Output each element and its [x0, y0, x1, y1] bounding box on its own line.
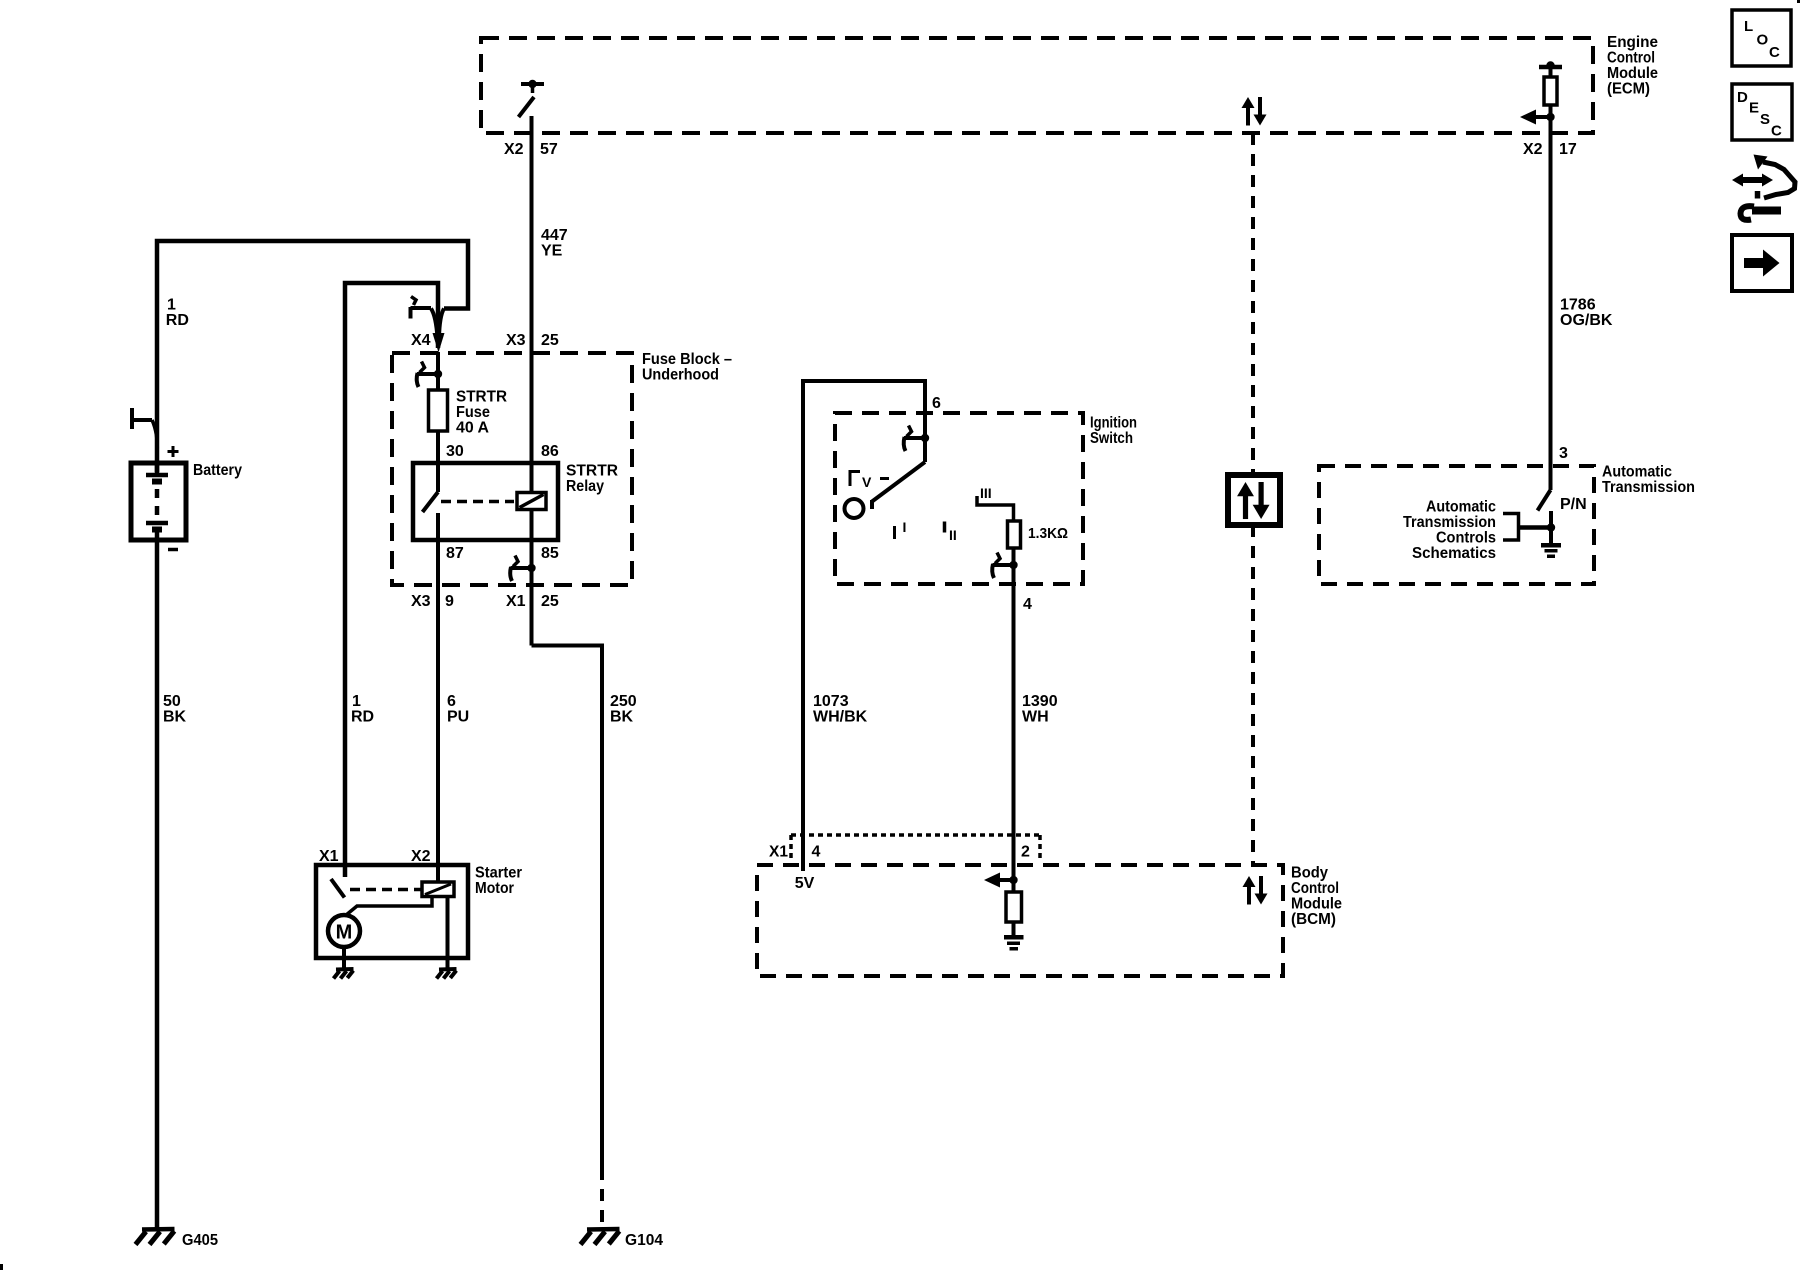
label 50 BK	[163, 693, 187, 726]
svg-text:Battery: Battery	[193, 462, 242, 479]
splice left branch	[431, 309, 438, 339]
svg-text:Control: Control	[1607, 50, 1655, 67]
automatic transmission box	[1319, 464, 1695, 585]
svg-text:D: D	[1737, 89, 1748, 106]
ECM input arrow junction	[1520, 105, 1555, 125]
svg-text:86: 86	[541, 443, 559, 460]
P/N switch blade	[1538, 490, 1551, 511]
svg-text:25: 25	[541, 332, 559, 349]
svg-text:X3: X3	[411, 593, 431, 610]
label 1786 OG/BK	[1560, 297, 1613, 330]
svg-text:RD: RD	[166, 312, 189, 329]
starter solenoid switch blade	[331, 879, 345, 898]
svg-text:87: 87	[446, 545, 464, 562]
svg-text:RD: RD	[351, 709, 374, 726]
svg-text:BK: BK	[610, 709, 634, 726]
svg-text:Switch: Switch	[1090, 430, 1133, 447]
fuse STRTR 40A	[429, 389, 508, 437]
node X2 57	[504, 141, 558, 158]
starter solenoid coil	[422, 882, 454, 897]
svg-text:Automatic: Automatic	[1426, 499, 1496, 516]
svg-text:X2: X2	[1523, 141, 1543, 158]
position mark I	[895, 519, 907, 539]
svg-text:BK: BK	[163, 709, 187, 726]
svg-text:5V: 5V	[795, 875, 815, 892]
svg-text:(ECM): (ECM)	[1607, 81, 1650, 98]
serial data dashed wire data link box to BCM	[1251, 525, 1255, 865]
transmission signal ground	[1541, 543, 1561, 558]
connector hook at battery positive	[132, 408, 157, 452]
connector at STRTR fuse feed	[417, 362, 443, 388]
wire coil to motor	[346, 897, 433, 916]
svg-text:X4: X4	[411, 332, 431, 349]
ECM pull-up resistor	[1544, 77, 1557, 105]
wire relay 85 down	[530, 510, 534, 646]
BCM X1 connector strip	[769, 835, 1040, 861]
ground G104	[581, 1229, 664, 1249]
icon LOC box	[1732, 10, 1791, 66]
svg-text:30: 30	[446, 443, 464, 460]
icon forward arrow box	[1732, 235, 1792, 291]
battery positive cable 1 RD	[157, 241, 468, 472]
position mark II	[945, 522, 957, 544]
svg-text:P/N: P/N	[1560, 496, 1587, 513]
svg-text:6: 6	[932, 395, 941, 412]
svg-text:G104: G104	[625, 1232, 663, 1249]
label 1390 WH	[1022, 693, 1058, 726]
ECM starter-relay driver switch	[519, 80, 545, 117]
splice arrowhead at X4	[433, 333, 445, 353]
svg-text:C: C	[1771, 123, 1782, 140]
wire fuse to relay 30	[436, 431, 440, 463]
svg-text:OG/BK: OG/BK	[1560, 312, 1613, 329]
svg-text:1073: 1073	[813, 693, 849, 710]
ground at starter solenoid	[437, 969, 457, 979]
svg-text:250: 250	[610, 693, 637, 710]
ground G405	[136, 1229, 219, 1249]
svg-text:4: 4	[812, 844, 821, 861]
node X2 17	[1523, 141, 1577, 158]
ignition switch box	[835, 413, 1137, 584]
svg-text:1: 1	[167, 297, 176, 314]
relay coil	[517, 493, 546, 510]
label 6 PU	[447, 693, 469, 726]
wire splice arrow to fuse	[436, 352, 440, 390]
node X3 9	[411, 593, 454, 610]
page corner mark	[0, 1264, 3, 1270]
svg-text:57: 57	[540, 141, 558, 158]
node X3 25 fuse block entry	[506, 332, 559, 349]
serial data up/down arrows in BCM	[1243, 876, 1268, 905]
relay dashed actuator link	[441, 500, 514, 504]
svg-text:V: V	[862, 474, 872, 490]
svg-text:III: III	[980, 485, 992, 501]
battery negative wire 50 BK	[155, 540, 160, 1228]
starter dashed actuator link	[350, 888, 421, 892]
svg-text:Module: Module	[1291, 896, 1342, 913]
P/N contact and junction	[1519, 511, 1555, 543]
svg-text:Transmission: Transmission	[1403, 514, 1496, 531]
svg-text:WH/BK: WH/BK	[813, 709, 868, 726]
svg-text:17: 17	[1559, 141, 1577, 158]
serial data up/down arrows in ECM	[1242, 97, 1267, 126]
wire 6 PU relay 87 to starter X2	[436, 513, 440, 882]
svg-text:25: 25	[541, 593, 559, 610]
BCM pull-down resistor	[1006, 880, 1022, 936]
connector at ignition pin 6	[904, 426, 930, 452]
svg-text:X1: X1	[506, 593, 526, 610]
svg-text:Ignition: Ignition	[1090, 415, 1137, 432]
svg-text:E: E	[1749, 100, 1759, 117]
wire solenoid coil to ground	[446, 897, 450, 969]
svg-text:YE: YE	[541, 243, 563, 260]
svg-text:C: C	[1769, 44, 1780, 61]
svg-text:50: 50	[163, 693, 181, 710]
label 1 RD top	[166, 297, 189, 330]
icon wiring harness arrows	[1732, 155, 1795, 220]
wire 1390 WH resistor to BCM	[1012, 548, 1016, 880]
wire motor to ground	[342, 947, 346, 968]
ground at starter motor	[334, 969, 354, 979]
svg-text:1: 1	[352, 693, 361, 710]
battery minus sign	[168, 548, 178, 552]
svg-text:2: 2	[1021, 844, 1030, 861]
svg-text:1786: 1786	[1560, 297, 1596, 314]
svg-text:Starter: Starter	[475, 865, 522, 882]
svg-text:Module: Module	[1607, 65, 1658, 82]
svg-text:Automatic: Automatic	[1602, 464, 1672, 481]
wire III to resistor	[977, 496, 1014, 521]
svg-text:PU: PU	[447, 709, 469, 726]
svg-text:X3: X3	[506, 332, 526, 349]
svg-text:II: II	[949, 527, 957, 543]
svg-text:Motor: Motor	[475, 880, 514, 897]
BCM signal ground	[1004, 935, 1024, 951]
wire starter X1 to splice 1 RD	[345, 283, 438, 877]
svg-text:X2: X2	[504, 141, 524, 158]
relay switch blade	[423, 463, 439, 512]
relay STRTR	[413, 463, 618, 541]
starter motor box	[316, 865, 522, 959]
wire 250 BK to G104	[532, 646, 603, 1229]
svg-text:S: S	[1760, 111, 1770, 128]
page corner mark top right	[1797, 0, 1800, 3]
svg-text:Engine: Engine	[1607, 34, 1658, 51]
bracket to schematics reference	[1503, 514, 1519, 541]
svg-text:4: 4	[1023, 596, 1032, 613]
svg-text:L: L	[1744, 18, 1753, 35]
BCM box (Body Control Module)	[757, 865, 1342, 977]
svg-text:Control: Control	[1291, 880, 1339, 897]
svg-text:I: I	[903, 519, 907, 535]
svg-text:Controls: Controls	[1436, 530, 1496, 547]
svg-text:Fuse: Fuse	[456, 404, 490, 421]
battery plus sign	[168, 446, 179, 457]
serial data link box	[1228, 475, 1280, 525]
svg-text:1390: 1390	[1022, 693, 1058, 710]
svg-text:6: 6	[447, 693, 456, 710]
svg-text:447: 447	[541, 227, 568, 244]
svg-text:M: M	[336, 922, 353, 944]
label 1 RD bottom	[351, 693, 374, 726]
label Automatic Transmission Controls Schematics	[1403, 499, 1496, 563]
svg-text:X1: X1	[319, 848, 339, 865]
svg-text:85: 85	[541, 545, 559, 562]
label 250 BK	[610, 693, 637, 726]
connector at ignition pin 4	[992, 553, 1018, 579]
svg-text:X1: X1	[769, 844, 788, 861]
ECM box (Engine Control Module)	[481, 34, 1658, 133]
icon DESC box	[1732, 84, 1792, 140]
svg-text:Transmission: Transmission	[1602, 479, 1695, 496]
svg-text:3: 3	[1559, 445, 1568, 462]
svg-text:G405: G405	[182, 1232, 218, 1249]
ignition switch wiper arm	[872, 438, 925, 509]
label 1073 WH/BK	[813, 693, 868, 726]
svg-text:Relay: Relay	[566, 478, 604, 495]
serial data dashed wire ECM to data link box	[1251, 133, 1255, 475]
svg-text:STRTR: STRTR	[566, 463, 618, 480]
connector hook at X4 splice	[411, 297, 432, 319]
svg-text:(BCM): (BCM)	[1291, 911, 1336, 928]
position mark IV	[850, 470, 889, 490]
label 447 YE	[541, 227, 568, 260]
node X1 25	[506, 593, 559, 610]
svg-text:1.3KΩ: 1.3KΩ	[1028, 525, 1068, 542]
battery cells	[146, 463, 168, 540]
Fuse Block - Underhood box	[392, 351, 732, 585]
ECM pull-up supply bar	[1539, 61, 1562, 78]
svg-text:Body: Body	[1291, 865, 1328, 882]
svg-text:Schematics: Schematics	[1412, 545, 1496, 562]
motor M	[328, 915, 360, 947]
svg-text:9: 9	[445, 593, 454, 610]
ignition resistor 1.3K	[1008, 521, 1069, 548]
svg-text:40 A: 40 A	[456, 420, 489, 437]
ignition switch rotor circle	[845, 499, 864, 518]
wire 1786 OG/BK from ECM X2-17 to automatic transmission	[1549, 117, 1553, 490]
battery	[131, 462, 242, 540]
svg-text:Fuse Block –: Fuse Block –	[642, 351, 732, 368]
BCM input arrow junction	[984, 873, 1018, 888]
svg-text:Underhood: Underhood	[642, 367, 719, 384]
svg-text:STRTR: STRTR	[456, 389, 507, 406]
connector on relay 85 wire	[510, 556, 536, 582]
svg-text:O: O	[1757, 32, 1769, 49]
wire 447 YE from ECM X2-57 to relay 86	[530, 116, 534, 492]
svg-text:X2: X2	[411, 848, 431, 865]
wire 1073 WH/BK ignition feed	[803, 381, 925, 871]
svg-text:WH: WH	[1022, 709, 1049, 726]
